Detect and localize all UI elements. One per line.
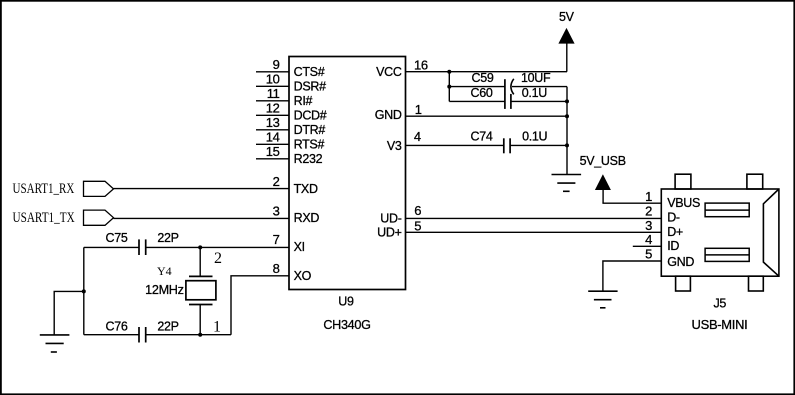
svg-text:5: 5: [414, 218, 421, 233]
wire GND pin1: [406, 115, 568, 117]
wire D+: [406, 231, 662, 233]
ground (main rail): [552, 175, 582, 192]
wire XO: [231, 276, 289, 335]
svg-text:D-: D-: [667, 211, 680, 225]
svg-text:14: 14: [266, 129, 280, 144]
svg-text:UD-: UD-: [380, 211, 401, 225]
svg-text:U9: U9: [338, 295, 354, 309]
connector J5 USB-MINI body: [661, 174, 779, 291]
wire RX: [114, 188, 290, 190]
svg-text:C75: C75: [105, 231, 127, 245]
svg-text:12: 12: [266, 100, 280, 115]
svg-text:RI#: RI#: [294, 94, 313, 108]
svg-text:1: 1: [213, 318, 221, 335]
svg-text:GND: GND: [375, 108, 402, 122]
svg-text:0.1U: 0.1U: [522, 86, 547, 100]
svg-text:9: 9: [273, 57, 280, 72]
port USART1_RX: [13, 181, 114, 197]
junction: [565, 99, 569, 103]
U9 pin number labels: [266, 57, 428, 276]
svg-text:8: 8: [273, 261, 280, 276]
svg-text:RTS#: RTS#: [294, 138, 325, 152]
svg-text:7: 7: [273, 232, 280, 247]
U9 pin name labels: [294, 65, 402, 283]
svg-text:C60: C60: [470, 86, 492, 100]
svg-text:22P: 22P: [157, 231, 178, 245]
junction: [82, 289, 86, 293]
svg-text:XI: XI: [294, 240, 305, 254]
svg-text:1: 1: [645, 189, 652, 204]
svg-text:TXD: TXD: [294, 182, 318, 196]
svg-text:D+: D+: [667, 225, 683, 239]
svg-text:C76: C76: [105, 320, 127, 334]
junction: [198, 245, 202, 249]
power 5V_USB: [580, 154, 626, 203]
svg-text:GND: GND: [667, 255, 694, 269]
svg-text:2: 2: [214, 250, 222, 267]
svg-text:15: 15: [266, 144, 280, 159]
junction: [447, 70, 451, 74]
svg-text:R232: R232: [294, 152, 323, 166]
svg-text:USB-MINI: USB-MINI: [692, 318, 748, 332]
capacitor C74 0.1U: [406, 129, 568, 153]
svg-text:3: 3: [273, 203, 280, 218]
wire VBUS: [602, 202, 661, 204]
svg-text:4: 4: [414, 129, 421, 144]
svg-text:ID: ID: [667, 239, 679, 253]
svg-text:0.1U: 0.1U: [522, 129, 547, 143]
svg-text:C74: C74: [470, 129, 492, 143]
junction: [447, 85, 451, 89]
svg-text:4: 4: [645, 232, 652, 247]
svg-text:VCC: VCC: [376, 65, 402, 79]
svg-text:13: 13: [266, 115, 280, 130]
U9 left pin stubs: pins 9,10,11,12,13,14,15: [256, 72, 289, 159]
svg-text:C59: C59: [471, 71, 493, 85]
capacitor C75 22P: [84, 231, 289, 255]
svg-text:10: 10: [266, 71, 280, 86]
svg-text:CTS#: CTS#: [294, 65, 325, 79]
crystal Y4 12MHz: [145, 247, 222, 335]
capacitor C76 22P: [84, 320, 231, 343]
wire GND pin5: [603, 261, 661, 291]
svg-text:VBUS: VBUS: [667, 196, 700, 210]
wire VCC pin16: [406, 71, 568, 73]
wire TX: [114, 217, 290, 219]
IC U9 (CH340G) body: [289, 57, 406, 290]
svg-text:UD+: UD+: [377, 226, 401, 240]
wire left rail: [83, 247, 85, 334]
J5 contact pads: [705, 203, 749, 261]
J5 pin name and pin number labels: [645, 189, 700, 269]
svg-text:12MHz: 12MHz: [145, 283, 184, 297]
svg-text:16: 16: [414, 57, 428, 72]
svg-text:22P: 22P: [157, 320, 178, 334]
svg-text:10UF: 10UF: [521, 71, 551, 85]
wire VCC feed vertical: [448, 72, 450, 102]
svg-text:V3: V3: [387, 139, 402, 153]
power 5V: [558, 10, 574, 72]
svg-text:11: 11: [267, 86, 280, 101]
svg-text:6: 6: [414, 203, 421, 218]
junction: [198, 333, 202, 337]
svg-text:RXD: RXD: [294, 211, 320, 225]
wire ground branch: [54, 291, 84, 335]
svg-text:2: 2: [273, 174, 280, 189]
wire D-: [406, 217, 662, 219]
svg-text:Y4: Y4: [157, 264, 172, 278]
junction: [565, 114, 569, 118]
svg-text:1: 1: [415, 102, 422, 117]
svg-text:XO: XO: [294, 269, 312, 283]
svg-text:5V: 5V: [559, 10, 575, 24]
svg-text:DTR#: DTR#: [294, 123, 326, 137]
ground (crystal): [40, 335, 70, 352]
svg-text:CH340G: CH340G: [323, 318, 370, 332]
svg-text:DCD#: DCD#: [294, 109, 327, 123]
svg-text:5: 5: [645, 247, 652, 262]
junction: [565, 143, 569, 147]
svg-text:5V_USB: 5V_USB: [580, 154, 626, 168]
svg-text:3: 3: [645, 218, 652, 233]
wire ID stub: [633, 245, 662, 247]
capacitor C60 0.1U: [449, 86, 567, 109]
svg-text:J5: J5: [713, 296, 726, 310]
svg-text:USART1_TX: USART1_TX: [13, 210, 75, 226]
svg-text:2: 2: [645, 204, 652, 219]
svg-text:USART1_RX: USART1_RX: [13, 181, 75, 197]
ground (USB): [588, 291, 617, 308]
port USART1_TX: [13, 210, 114, 226]
svg-text:DSR#: DSR#: [294, 80, 326, 94]
wire ground trunk: [566, 87, 568, 175]
capacitor C59 10UF: [449, 71, 567, 94]
